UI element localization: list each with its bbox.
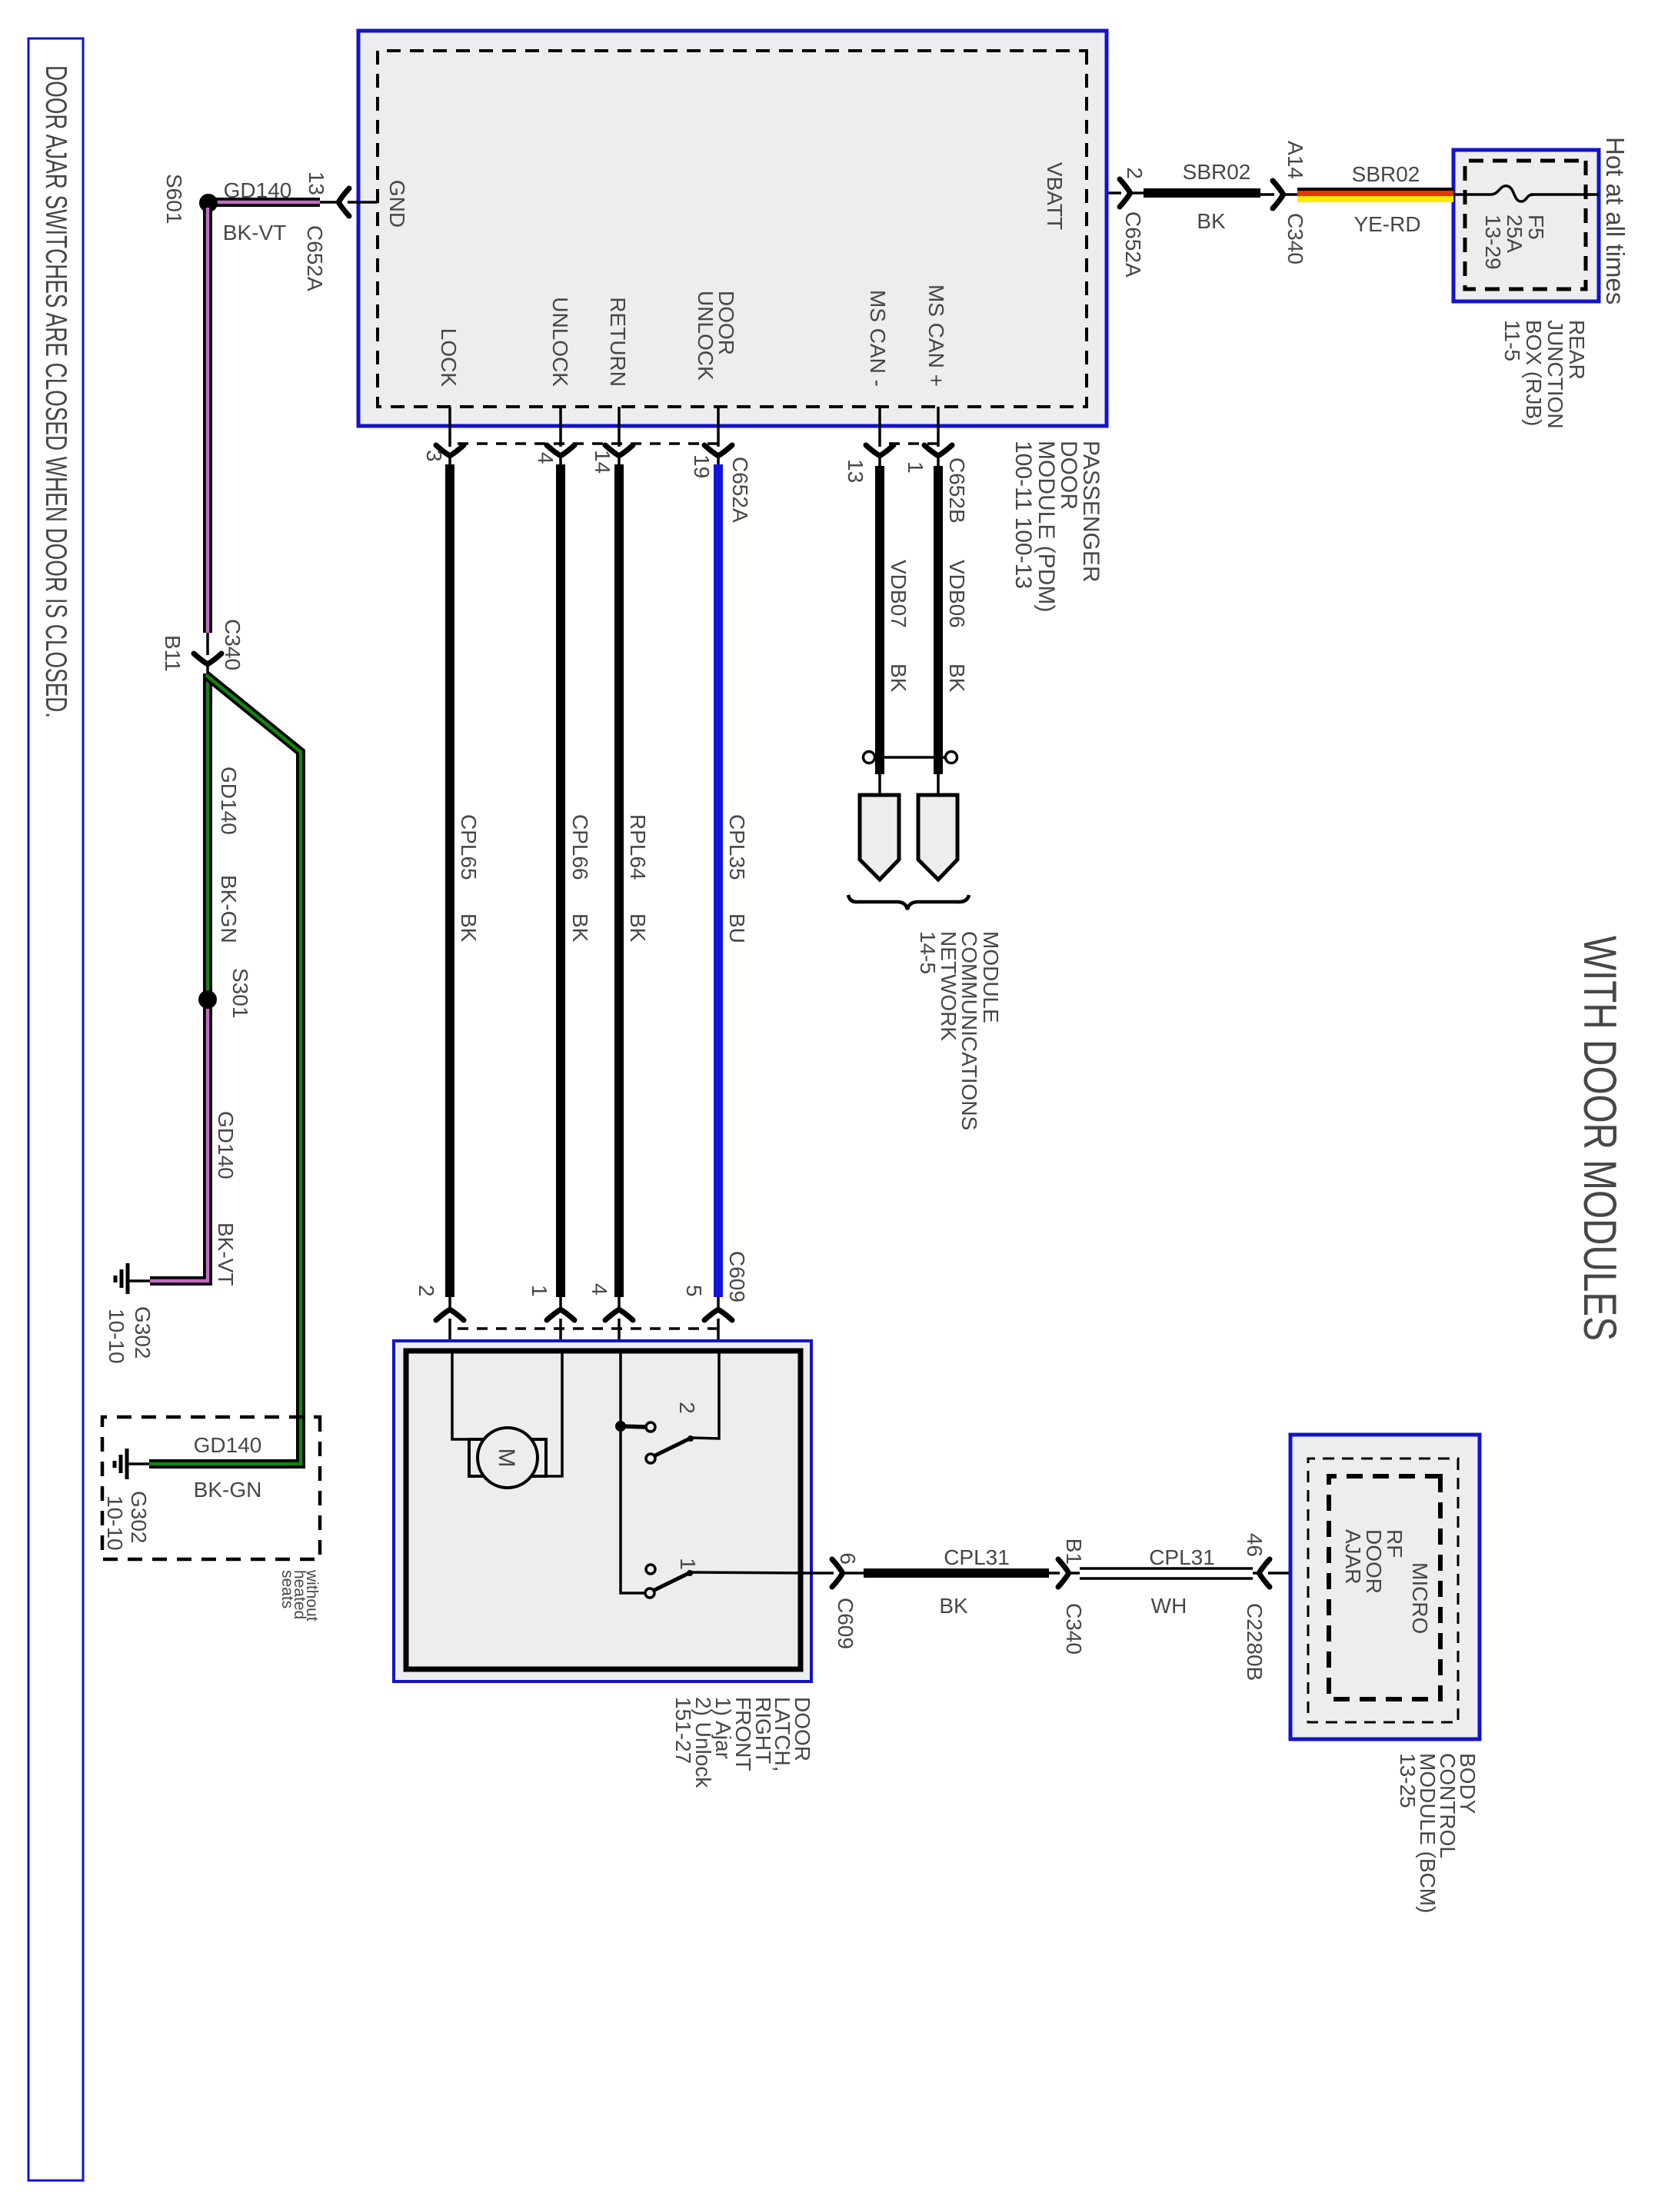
svg-text:14-5: 14-5 — [916, 931, 940, 974]
wire CPL31 WH double line — [1080, 1567, 1253, 1570]
unlock switch blade — [654, 1438, 691, 1456]
svg-text:DOOR AJAR SWITCHES ARE CLOSED: DOOR AJAR SWITCHES ARE CLOSED WHEN DOOR … — [39, 65, 72, 718]
svg-text:CPL31: CPL31 — [944, 1545, 1010, 1569]
svg-text:13: 13 — [305, 171, 328, 195]
svg-text:SBR02: SBR02 — [1352, 162, 1420, 186]
svg-text:JUNCTION: JUNCTION — [1543, 320, 1567, 429]
wire VDB06 BK thick — [934, 466, 943, 774]
pin 4 wire UNLOCK arrow — [559, 407, 562, 464]
door latch inner black border — [406, 1351, 801, 1669]
svg-text:1: 1 — [528, 1285, 551, 1297]
svg-text:CPL66: CPL66 — [568, 814, 592, 880]
motor lock wire — [452, 1351, 469, 1439]
svg-text:100-11 100-13: 100-11 100-13 — [1010, 441, 1036, 589]
pin 19 wire DOOR UNLOCK arrow — [717, 407, 720, 464]
svg-text:2: 2 — [675, 1402, 699, 1414]
svg-text:GND: GND — [385, 180, 409, 228]
motor unlock wire — [546, 1351, 562, 1476]
svg-text:C609: C609 — [725, 1251, 749, 1302]
svg-text:C2280B: C2280B — [1243, 1603, 1267, 1681]
unlock switch pivot — [646, 1454, 655, 1463]
wire GD140 BK-VT horizontal — [203, 203, 212, 633]
wire to B11 connector — [206, 633, 209, 674]
wire hot feed vertical in RJB — [1530, 193, 1599, 196]
svg-text:REAR: REAR — [1565, 320, 1589, 380]
pin 14 wire RETURN arrow — [618, 407, 621, 464]
svg-text:WH: WH — [1151, 1594, 1187, 1618]
svg-text:C340: C340 — [221, 619, 245, 670]
svg-text:S301: S301 — [228, 968, 252, 1018]
svg-text:13-25: 13-25 — [1396, 1753, 1420, 1808]
svg-text:BK: BK — [945, 664, 969, 693]
pin 1 wire MS CAN + arrow — [937, 407, 940, 466]
wire CPL66 BK thick — [556, 464, 565, 1297]
svg-text:Hot at all times: Hot at all times — [1601, 137, 1630, 304]
unlock switch fixed contact — [646, 1422, 655, 1432]
door latch box — [394, 1341, 811, 1681]
motor bracket top — [527, 1439, 546, 1476]
svg-text:BK-GN: BK-GN — [217, 875, 241, 943]
svg-text:GD140: GD140 — [194, 1433, 262, 1457]
svg-text:M: M — [494, 1449, 519, 1468]
svg-text:1: 1 — [904, 461, 927, 474]
svg-text:10-10: 10-10 — [105, 1309, 128, 1364]
pin 6 arrow C609 — [811, 1572, 864, 1575]
svg-text:MODULE: MODULE — [979, 931, 1003, 1023]
svg-text:C652A: C652A — [1121, 211, 1145, 278]
svg-text:GD140: GD140 — [224, 178, 292, 202]
connector C340 B11 arrow — [194, 654, 221, 664]
svg-text:AJAR: AJAR — [1341, 1529, 1365, 1585]
terminal MS CAN + — [918, 795, 957, 880]
svg-text:BK-GN: BK-GN — [194, 1478, 262, 1502]
svg-text:BK-VT: BK-VT — [214, 1222, 238, 1286]
motor M circle — [478, 1428, 538, 1488]
dashed box without heated seats — [102, 1417, 320, 1559]
svg-text:14: 14 — [591, 450, 614, 474]
svg-text:WITH DOOR MODULES: WITH DOOR MODULES — [1574, 936, 1626, 1341]
svg-text:MICRO: MICRO — [1408, 1562, 1432, 1634]
wire RPL64 BK thick — [614, 464, 624, 1297]
connector C652B dashed line at PDM — [880, 442, 938, 445]
svg-text:151-27: 151-27 — [671, 1697, 695, 1764]
svg-text:4: 4 — [588, 1283, 611, 1296]
BCM micro dashed border — [1329, 1476, 1440, 1699]
svg-text:S601: S601 — [162, 174, 186, 224]
svg-text:C609: C609 — [834, 1598, 857, 1649]
ajar switch fixed contact — [646, 1565, 655, 1574]
BCM outer dashed border — [1308, 1459, 1458, 1722]
twisted pair symbol — [946, 752, 957, 763]
svg-text:MODULE (PDM): MODULE (PDM) — [1034, 441, 1059, 612]
svg-text:A14: A14 — [1283, 141, 1307, 179]
svg-text:BK: BK — [887, 664, 911, 693]
module PDM box — [358, 31, 1107, 426]
svg-text:2: 2 — [1123, 167, 1147, 179]
svg-text:RPL64: RPL64 — [626, 814, 650, 880]
module BCM box — [1290, 1435, 1480, 1739]
ajar switch blade — [653, 1572, 691, 1591]
svg-text:CPL31: CPL31 — [1149, 1545, 1215, 1569]
pin GND wire — [320, 201, 378, 204]
svg-text:46: 46 — [1243, 1533, 1267, 1557]
svg-text:BK: BK — [568, 913, 592, 943]
svg-text:MS CAN -: MS CAN - — [866, 290, 890, 387]
footer note bar — [28, 38, 83, 2180]
fuse F5 25A — [1490, 186, 1533, 201]
RJB inner dashed border — [1465, 161, 1586, 289]
svg-text:seats: seats — [278, 1570, 296, 1608]
svg-text:VBATT: VBATT — [1043, 162, 1067, 230]
svg-text:C340: C340 — [1283, 213, 1307, 264]
svg-text:GD140: GD140 — [214, 1111, 238, 1179]
connector C609 dashed line at latch — [450, 1327, 718, 1330]
connector C652A arrow pin 2 — [1087, 191, 1144, 195]
svg-text:B11: B11 — [161, 635, 185, 672]
rear junction box RJB — [1453, 150, 1599, 301]
svg-text:BK: BK — [1197, 209, 1226, 233]
latch receiving arrows pins 2 1 4 5 — [448, 1297, 451, 1351]
ground G302 symbol 2 — [128, 1462, 149, 1465]
svg-text:CPL35: CPL35 — [725, 814, 749, 880]
wire CPL31 BK thick — [864, 1568, 1049, 1578]
svg-text:LOCK: LOCK — [437, 328, 461, 388]
svg-text:BU: BU — [725, 913, 749, 943]
connector C340 arrow A14 — [1260, 193, 1297, 196]
switch common rail from RETURN — [621, 1351, 645, 1593]
wire tail MS CAN + — [937, 774, 940, 795]
wire CPL65 BK thick — [445, 464, 454, 1297]
svg-text:B1: B1 — [1062, 1538, 1086, 1565]
svg-text:5: 5 — [682, 1285, 706, 1297]
svg-text:13: 13 — [844, 459, 867, 483]
wire tail MS CAN - — [878, 774, 881, 795]
splice S601 — [199, 194, 218, 212]
svg-text:YE-RD: YE-RD — [1353, 212, 1420, 236]
splice S301 — [198, 990, 217, 1009]
svg-text:MS CAN +: MS CAN + — [924, 284, 948, 387]
svg-text:2: 2 — [414, 1285, 438, 1297]
ajar switch pivot — [645, 1588, 654, 1598]
pin 3 wire LOCK arrow — [448, 407, 451, 464]
svg-text:GD140: GD140 — [217, 767, 241, 835]
svg-text:C652A: C652A — [728, 457, 752, 523]
svg-text:G302: G302 — [127, 1491, 151, 1544]
svg-text:CPL65: CPL65 — [457, 814, 481, 880]
rail junction dot — [615, 1421, 626, 1432]
svg-text:C652B: C652B — [945, 457, 969, 524]
svg-text:F5: F5 — [1524, 215, 1548, 240]
wire GD140 BK-GN horizontal B11 to S301 — [203, 674, 212, 1000]
svg-text:C340: C340 — [1062, 1603, 1086, 1655]
svg-text:VDB07: VDB07 — [887, 560, 911, 628]
PDM inner dashed border — [378, 51, 1087, 407]
svg-text:G302: G302 — [131, 1306, 155, 1359]
svg-text:13-29: 13-29 — [1481, 215, 1505, 270]
svg-text:19: 19 — [690, 454, 714, 478]
motor bracket bottom — [469, 1439, 487, 1476]
svg-text:4: 4 — [534, 452, 558, 464]
unlock switch wire to pin 5 — [691, 1351, 719, 1439]
svg-text:UNLOCK: UNLOCK — [548, 297, 572, 387]
wire VDB07 BK thick — [875, 466, 884, 774]
pin 13 wire MS CAN - arrow — [878, 407, 881, 466]
svg-text:RETURN: RETURN — [606, 297, 630, 387]
wire SBR02 YE-RD colored band — [1297, 188, 1453, 191]
svg-text:BOX (RJB): BOX (RJB) — [1522, 320, 1546, 426]
pin 46 arrow C2280B — [1253, 1572, 1329, 1575]
connector C340 B1 arrow — [1049, 1572, 1080, 1575]
svg-text:1: 1 — [676, 1558, 700, 1570]
svg-text:VDB06: VDB06 — [945, 560, 969, 628]
svg-text:BK: BK — [939, 1594, 968, 1618]
svg-text:25A: 25A — [1503, 215, 1526, 253]
svg-text:3: 3 — [422, 450, 446, 462]
wire GD140 BK-VT vertical — [208, 198, 320, 207]
terminal MS CAN - — [860, 795, 899, 880]
svg-text:BK-VT: BK-VT — [223, 221, 286, 244]
svg-text:BK: BK — [457, 913, 481, 943]
wire GD140 BK-VT to ground G302 — [150, 1000, 208, 1281]
svg-text:UNLOCK: UNLOCK — [694, 291, 717, 381]
unlock switch fixed contact stub — [621, 1426, 646, 1427]
svg-text:11-5: 11-5 — [1500, 320, 1524, 361]
connector C652A dashed line at PDM — [450, 442, 718, 445]
brace module communications network — [848, 895, 969, 910]
ground G302 symbol 1 — [129, 1279, 150, 1282]
svg-text:10-10: 10-10 — [103, 1495, 127, 1551]
wire GD140 BK-GN branch diagonal — [149, 675, 301, 1464]
ajar switch wire to pin 6 — [691, 1572, 811, 1573]
svg-text:BK: BK — [626, 913, 650, 943]
wire CPL35 BU thick blue — [714, 464, 723, 1297]
svg-text:6: 6 — [836, 1552, 860, 1565]
svg-text:SBR02: SBR02 — [1183, 160, 1251, 184]
svg-text:C652A: C652A — [303, 225, 327, 291]
wire SBR02 BK thick — [1144, 188, 1260, 198]
GND exit arrow — [339, 188, 350, 216]
